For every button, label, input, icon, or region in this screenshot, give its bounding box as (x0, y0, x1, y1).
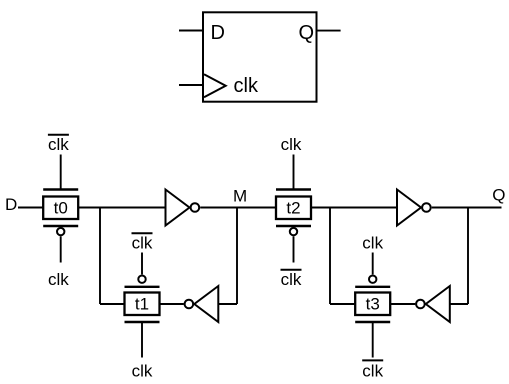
svg-text:clk: clk (132, 361, 153, 380)
svg-text:clk: clk (234, 75, 259, 97)
svg-text:t0: t0 (54, 199, 68, 218)
svg-text:clk: clk (48, 270, 69, 289)
svg-text:t2: t2 (286, 199, 300, 218)
svg-text:clk: clk (48, 135, 69, 154)
svg-text:M: M (233, 187, 247, 206)
svg-text:D: D (5, 195, 17, 214)
svg-text:clk: clk (132, 234, 153, 253)
svg-text:Q: Q (299, 22, 315, 44)
svg-text:clk: clk (281, 270, 302, 289)
svg-text:Q: Q (492, 186, 505, 205)
svg-text:clk: clk (362, 361, 383, 380)
svg-text:D: D (211, 22, 225, 44)
svg-text:t3: t3 (366, 295, 380, 314)
svg-text:clk: clk (362, 234, 383, 253)
svg-text:clk: clk (281, 135, 302, 154)
svg-text:t1: t1 (135, 295, 149, 314)
